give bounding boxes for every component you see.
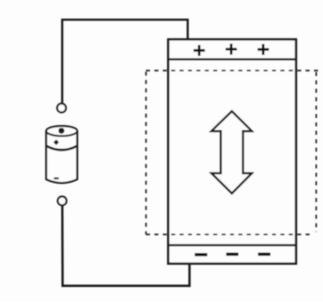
node: bottom terminal circle of battery <box>58 197 67 206</box>
- charge symbol 1 <box>195 253 208 256</box>
line: top of negative electrode band <box>168 244 296 246</box>
- charge symbol 3 <box>258 253 271 256</box>
battery positive nub (top dot) <box>58 128 64 134</box>
battery B1 (cylindrical cell) <box>46 126 77 183</box>
element body (white fill of crystal slab) <box>168 39 296 263</box>
dashed outline: undeformed position of the crystal <box>146 71 319 235</box>
node: top terminal circle of battery <box>57 104 66 113</box>
battery - mark <box>54 177 59 179</box>
double-headed arrow (thickness change of crystal) <box>211 111 252 193</box>
battery + mark (diamond) <box>53 140 59 146</box>
wire: from battery positive terminal up and across to top electrode <box>62 20 188 103</box>
+ charge symbol 2 <box>226 44 237 55</box>
line: bottom of positive electrode band <box>168 58 296 60</box>
- charge symbol 2 <box>226 253 238 256</box>
+ charge symbol 3 <box>258 44 269 55</box>
element border <box>168 39 296 263</box>
wire: from battery negative terminal down and across to bottom electrode <box>62 206 189 286</box>
+ charge symbol 1 <box>194 45 205 56</box>
